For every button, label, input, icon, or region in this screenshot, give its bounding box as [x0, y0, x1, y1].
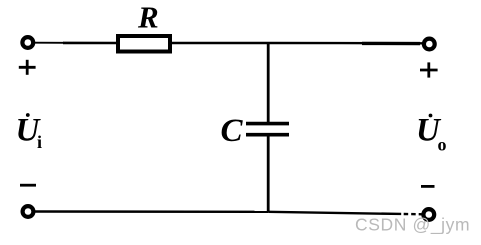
resistor R — [118, 36, 170, 52]
wire top-right (node to output terminal, slightly dashed scan look) — [340, 42, 424, 45]
capacitor C top plate — [246, 122, 289, 126]
terminal output top-right — [424, 39, 435, 50]
wire bottom-right (node to terminal, dotted scan look) — [268, 212, 423, 215]
svg-text:i: i — [37, 132, 42, 152]
wire top-middle (resistor to node) — [172, 42, 268, 44]
capacitor C bottom plate — [246, 133, 289, 137]
dot above U_i — [26, 113, 30, 117]
wire capacitor top lead — [267, 43, 270, 122]
wire top-left (terminal to resistor) — [34, 42, 64, 44]
node top (junction with capacitor branch) — [268, 42, 340, 44]
svg-text:C: C — [221, 113, 244, 149]
wire top-right thickened scan segment — [362, 42, 420, 46]
minus sign input — [20, 184, 36, 187]
terminal input bottom-left — [23, 206, 34, 217]
dot above U_o — [429, 114, 433, 118]
plus sign output — [420, 62, 438, 77]
terminal output bottom-right — [423, 209, 434, 220]
svg-text:o: o — [438, 135, 447, 155]
svg-text:CSDN @_jym: CSDN @_jym — [355, 215, 470, 236]
wire top-left thicker segment — [63, 42, 116, 45]
terminal input top-left — [22, 37, 33, 48]
minus sign output — [421, 185, 435, 188]
plus sign input — [19, 60, 36, 75]
svg-text:R: R — [137, 0, 159, 35]
wire capacitor bottom lead — [267, 136, 270, 212]
wire bottom-left (terminal to node) — [34, 210, 268, 213]
